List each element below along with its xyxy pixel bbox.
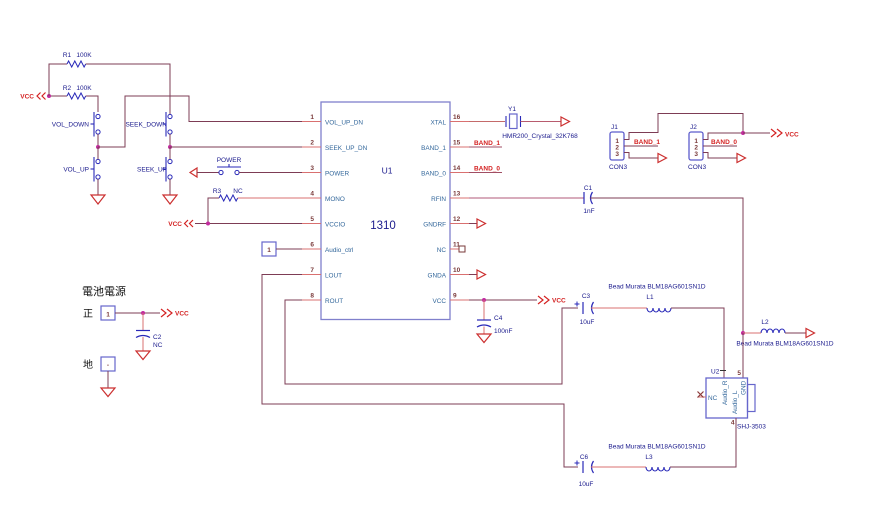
switch VOL_DOWN <box>52 112 100 137</box>
wire J2 pin2 BAND_0 <box>703 145 737 147</box>
junction VOL node <box>96 145 100 149</box>
wire J1 pin2 BAND_1 <box>624 145 658 147</box>
junction VCC/C4 <box>482 298 486 302</box>
ground (battery) <box>101 388 115 397</box>
svg-text:C2: C2 <box>153 334 162 341</box>
junction VCC/R1/R2 <box>47 94 51 98</box>
wire J2 pin1 to VCC junction <box>703 133 743 140</box>
off-page arrow (GNDA) <box>477 270 486 279</box>
svg-text:5: 5 <box>737 370 741 377</box>
crystal Y1 <box>502 106 578 140</box>
wire junction to C2 <box>142 313 144 331</box>
svg-text:GND: GND <box>741 380 748 395</box>
junction battery/C2 <box>141 311 145 315</box>
wire C6 to L3 <box>591 466 646 468</box>
wire L1 to U2 Audio_R <box>671 308 724 378</box>
wire C2 to ground <box>142 337 144 351</box>
svg-text:100K: 100K <box>76 52 92 59</box>
wire R3 left lead to VCC <box>208 198 219 224</box>
svg-text:8: 8 <box>310 293 314 300</box>
svg-text:VCC: VCC <box>168 221 182 228</box>
wire J2 pin3 to arrow <box>703 153 737 159</box>
ground (VOL_UP) <box>91 195 105 204</box>
inductor L2 <box>761 319 785 333</box>
svg-text:4: 4 <box>310 191 314 198</box>
wire antenna node to U2 pin5 <box>742 333 744 378</box>
svg-text:GNDA: GNDA <box>428 273 447 280</box>
svg-text:15: 15 <box>453 140 461 147</box>
svg-text:LOUT: LOUT <box>325 273 342 280</box>
off-page arrow (J2 pin3) <box>737 154 746 163</box>
wire R2 right to VOL_DOWN <box>86 96 98 112</box>
no-connect X (U2 NC) <box>698 392 707 398</box>
battery terminal box 1 <box>101 306 115 320</box>
svg-text:BAND_1: BAND_1 <box>634 139 660 146</box>
svg-text:14: 14 <box>453 165 461 172</box>
svg-text:BAND_1: BAND_1 <box>421 145 446 152</box>
svg-text:-: - <box>107 362 109 369</box>
svg-text:RFIN: RFIN <box>431 196 446 203</box>
wire battery- to ground <box>107 371 109 388</box>
power flag VCC (VCCIO) <box>168 220 193 228</box>
svg-text:U2: U2 <box>711 369 720 376</box>
off-page arrow (J1 pin3) <box>658 154 667 163</box>
wire J1 pin1 to VCC rail <box>624 114 743 140</box>
svg-text:地: 地 <box>83 358 93 371</box>
junction J rail VCC <box>741 131 745 135</box>
pin 5 VCCIO <box>302 216 345 229</box>
resistor R1 <box>63 52 92 67</box>
capacitor C4 <box>477 315 512 335</box>
off-page arrow (POWER, left) <box>190 168 197 177</box>
svg-text:NC: NC <box>437 247 447 254</box>
svg-text:2: 2 <box>310 140 314 147</box>
pin 12 GNDRF <box>423 216 469 229</box>
svg-text:BAND_0: BAND_0 <box>421 171 446 178</box>
wire C1 to antenna node <box>590 198 743 333</box>
pin 16 XTAL <box>430 114 469 127</box>
svg-text:10uF: 10uF <box>580 319 595 326</box>
pin 9 VCC <box>433 293 470 306</box>
wire junction to L2 <box>743 332 761 334</box>
junction SEEK node <box>168 145 172 149</box>
svg-text:GNDRF: GNDRF <box>423 222 446 229</box>
junction R3/VCC <box>206 222 210 226</box>
svg-text:3: 3 <box>310 165 314 172</box>
svg-text:3: 3 <box>615 151 619 158</box>
svg-text:C1: C1 <box>584 185 593 192</box>
svg-text:POWER: POWER <box>217 157 242 164</box>
wire C3 to L1 <box>591 307 647 309</box>
svg-text:VOL_DOWN: VOL_DOWN <box>52 122 90 129</box>
wire R3 right to pin 4 <box>238 197 302 199</box>
pin 2 SEEK_UP_DN <box>302 140 368 153</box>
connector J2 CON3 <box>688 124 706 171</box>
svg-text:VCC: VCC <box>175 311 189 318</box>
power flag VCC (J rail) <box>771 129 799 139</box>
svg-text:J2: J2 <box>690 124 697 131</box>
svg-text:100nF: 100nF <box>494 328 512 335</box>
svg-text:L1: L1 <box>646 294 654 301</box>
wire BAND_1 (pin 15) <box>469 146 502 148</box>
svg-text:VCC: VCC <box>433 298 447 305</box>
inductor L3 <box>645 454 670 471</box>
wire VOL node to pin 1 <box>98 96 302 147</box>
svg-text:L3: L3 <box>645 454 653 461</box>
svg-text:Audio_L: Audio_L <box>732 390 739 414</box>
svg-text:16: 16 <box>453 114 461 121</box>
svg-text:SHJ-3503: SHJ-3503 <box>737 424 766 431</box>
svg-text:R1: R1 <box>63 52 72 59</box>
wire box to pin 6 <box>276 248 302 250</box>
pin 1 VOL_UP_DN <box>302 114 363 127</box>
svg-text:CON3: CON3 <box>609 164 627 171</box>
pin 10 GNDA <box>428 267 469 280</box>
svg-text:1: 1 <box>310 114 314 121</box>
pin 14 BAND_0 <box>421 165 469 178</box>
svg-text:ROUT: ROUT <box>325 298 343 305</box>
wire battery+ to VCC <box>115 312 160 314</box>
pin 3 POWER <box>302 165 350 178</box>
svg-text:1: 1 <box>267 247 271 254</box>
power flag VCC (top left) <box>20 93 45 101</box>
svg-text:BAND_1: BAND_1 <box>474 140 500 147</box>
svg-text:CON3: CON3 <box>688 164 706 171</box>
svg-text:NC: NC <box>708 395 718 402</box>
svg-text:1: 1 <box>106 312 110 319</box>
svg-text:100K: 100K <box>76 85 92 92</box>
wire RFIN to C1 <box>469 197 584 199</box>
svg-text:Bead Murata BLM18AG601SN1D: Bead Murata BLM18AG601SN1D <box>736 341 833 348</box>
svg-text:3: 3 <box>694 151 698 158</box>
wire GNDA stub <box>469 274 477 276</box>
switch SEEK_UP <box>137 157 172 182</box>
connector Audio_ctrl box "1" <box>262 242 276 256</box>
svg-text:R2: R2 <box>63 85 72 92</box>
svg-text:正: 正 <box>83 309 93 320</box>
wire R1 right to SEEK_DOWN <box>86 64 170 114</box>
svg-text:Y1: Y1 <box>508 106 516 113</box>
svg-text:5: 5 <box>310 216 314 223</box>
op-amp/IC U1 1310 body <box>321 102 450 320</box>
inductor L1 <box>646 294 671 312</box>
svg-text:1nF: 1nF <box>583 208 594 215</box>
connector J1 CON3 <box>609 124 627 171</box>
svg-text:Bead Murata BLM18AG601SN1D: Bead Murata BLM18AG601SN1D <box>608 284 705 291</box>
wire L2 to arrow <box>785 332 806 334</box>
junction antenna/L2 <box>741 331 745 335</box>
wire VCC node <box>47 95 67 97</box>
svg-text:VCC: VCC <box>552 298 566 305</box>
svg-text:BAND_0: BAND_0 <box>711 139 737 146</box>
svg-text:4: 4 <box>731 420 735 427</box>
pin 15 BAND_1 <box>421 140 469 153</box>
off-page arrow (L2) <box>806 329 815 338</box>
pin 6 Audio_ctrl <box>302 242 353 255</box>
wire C4 to ground <box>483 327 485 335</box>
off-page arrow (XTAL) <box>561 117 570 126</box>
wire SEEK_DOWN to junction <box>169 134 171 147</box>
capacitor C3 <box>575 293 595 326</box>
capacitor C2 NC <box>136 331 163 350</box>
pin 4 MONO <box>302 191 345 204</box>
svg-text:10: 10 <box>453 267 461 274</box>
svg-text:6: 6 <box>310 242 314 249</box>
wire BAND_0 (pin 14) <box>469 172 502 174</box>
wire GNDRF stub <box>469 223 477 225</box>
resistor R3 <box>213 188 243 201</box>
svg-text:13: 13 <box>453 191 461 198</box>
svg-text:12: 12 <box>453 216 461 223</box>
svg-text:C6: C6 <box>580 454 589 461</box>
svg-text:VCC: VCC <box>785 132 799 139</box>
wire junction to C4 <box>483 300 485 320</box>
wire SEEK_UP to ground <box>169 179 171 195</box>
wire VOL junction to VOL_UP <box>97 147 99 159</box>
svg-text:R3: R3 <box>213 188 222 195</box>
pin 8 ROUT <box>302 293 343 306</box>
wire POWER to pin 3 <box>239 172 302 174</box>
switch SEEK_DOWN <box>125 112 172 137</box>
wire LOUT path <box>262 275 578 468</box>
svg-text:9: 9 <box>453 293 457 300</box>
svg-text:U1: U1 <box>382 166 393 176</box>
pin 7 LOUT <box>302 267 342 280</box>
wire arrow to POWER switch <box>197 172 219 174</box>
svg-text:VCCIO: VCCIO <box>325 222 345 229</box>
wire crystal to arrow <box>521 121 562 123</box>
svg-text:C3: C3 <box>582 293 591 300</box>
svg-text:C4: C4 <box>494 315 503 322</box>
wire SEEK junction to SEEK_UP <box>169 147 171 159</box>
svg-text:SEEK_UP_DN: SEEK_UP_DN <box>325 145 368 152</box>
connector U2 SHJ-3503 <box>706 369 766 431</box>
svg-text:VOL_UP_DN: VOL_UP_DN <box>325 120 363 127</box>
switch POWER <box>217 157 242 175</box>
wire R1 left lead down <box>49 64 67 96</box>
wire VOL_DOWN to junction <box>97 134 99 147</box>
svg-text:Audio_ctrl: Audio_ctrl <box>325 247 353 254</box>
svg-text:J1: J1 <box>611 124 618 131</box>
svg-text:10uF: 10uF <box>579 481 594 488</box>
wire VCC to pin 5 <box>195 223 302 225</box>
svg-text:HMR200_Crystal_32K768: HMR200_Crystal_32K768 <box>502 133 578 140</box>
ground (C2) <box>136 351 150 360</box>
pin 13 RFIN <box>431 191 469 204</box>
capacitor C1 <box>583 185 594 215</box>
wire VCC (pin 9) <box>469 299 537 301</box>
power flag VCC (battery) <box>161 309 189 318</box>
svg-text:POWER: POWER <box>325 171 350 178</box>
svg-text:XTAL: XTAL <box>430 120 446 127</box>
svg-text:VCC: VCC <box>20 94 34 101</box>
wire junction to VCC flag <box>743 132 770 134</box>
wire XTAL to crystal <box>469 121 505 123</box>
switch VOL_UP <box>63 157 100 182</box>
svg-text:L2: L2 <box>761 319 769 326</box>
wire SEEK node to pin 2 <box>170 146 302 148</box>
svg-text:MONO: MONO <box>325 196 345 203</box>
svg-text:1310: 1310 <box>370 220 396 232</box>
svg-text:7: 7 <box>310 267 314 274</box>
resistor R2 <box>63 85 92 99</box>
wire J1 pin3 to arrow <box>624 153 658 159</box>
ground (C4) <box>477 334 491 343</box>
svg-text:NC: NC <box>233 188 243 195</box>
off-page arrow (GNDRF) <box>477 219 486 228</box>
pin 11 NC <box>437 242 460 255</box>
ground (SEEK_UP) <box>163 195 177 204</box>
battery terminal box - <box>101 357 115 371</box>
power flag VCC (pin 9) <box>538 296 566 305</box>
no-connect square pin 11 <box>459 246 465 252</box>
svg-text:BAND_0: BAND_0 <box>474 166 500 173</box>
svg-text:Bead Murata BLM18AG601SN1D: Bead Murata BLM18AG601SN1D <box>608 444 705 451</box>
svg-text:電池電源: 電池電源 <box>82 284 126 298</box>
capacitor C6 <box>575 454 594 488</box>
wire ROUT path <box>285 300 578 384</box>
svg-text:Audio_R: Audio_R <box>722 380 729 405</box>
wire VOL_UP to ground <box>97 179 99 195</box>
svg-text:VOL_UP: VOL_UP <box>63 167 89 174</box>
svg-text:NC: NC <box>153 342 163 349</box>
svg-text:SEEK_DOWN: SEEK_DOWN <box>125 122 167 129</box>
wire L3 to U2 Audio_L <box>670 418 736 467</box>
svg-text:SEEK_UP: SEEK_UP <box>137 167 167 174</box>
